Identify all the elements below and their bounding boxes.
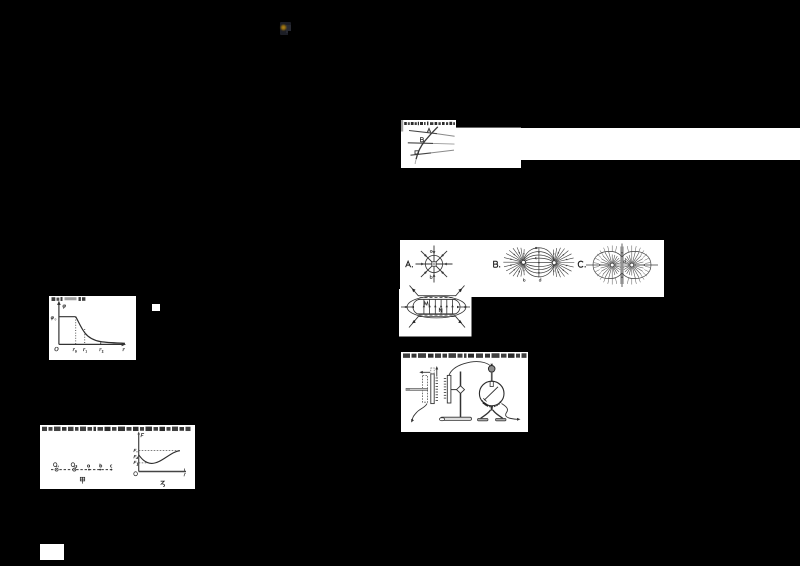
like charges field pattern (two negative charges) xyxy=(586,243,658,287)
charge ticks right of solid plate xyxy=(436,378,438,400)
garbled bold caption row xyxy=(42,426,191,430)
stand base xyxy=(441,417,472,420)
svg-text:φ: φ xyxy=(50,315,53,321)
dotted vertical at r1 xyxy=(83,329,85,344)
equipotential line middle xyxy=(407,141,432,144)
option label B. xyxy=(494,261,498,267)
inward arrowheads xyxy=(421,251,447,277)
svg-text:O: O xyxy=(54,347,59,353)
charge circles C xyxy=(610,263,614,267)
jia glyph xyxy=(80,477,84,483)
figure: equipotential lines with trajectory A B C xyxy=(401,120,521,168)
top plate xyxy=(418,295,456,297)
y tick labels xyxy=(134,449,138,465)
outer oval xyxy=(407,296,466,318)
figure: capacitor inside oval field region xyxy=(399,285,472,337)
svg-text:0: 0 xyxy=(75,349,77,353)
vertical field lines with up arrows xyxy=(424,299,453,313)
black top-right strip of scanned image xyxy=(456,120,521,128)
garbled caption xyxy=(51,297,85,301)
y axis xyxy=(57,304,59,345)
label B xyxy=(420,137,423,141)
figure: phi - r graph xyxy=(49,296,137,360)
corner diagonal field lines xyxy=(409,286,465,328)
horizontal phi0 line xyxy=(58,316,75,318)
garbled caption text xyxy=(404,121,455,125)
small white square right of graph xyxy=(152,304,161,311)
top arrows xyxy=(422,371,431,373)
svg-text:1: 1 xyxy=(85,349,87,353)
x axis xyxy=(58,343,122,345)
middle: plate on insulating stand xyxy=(447,375,451,403)
dipole field pattern xyxy=(523,247,554,277)
axis labels r0 r1 r2 r xyxy=(72,347,125,353)
middle vertical xyxy=(621,243,623,287)
r2 tick xyxy=(99,342,101,344)
charge circles xyxy=(522,260,526,264)
horizontal mid line through xyxy=(401,306,413,308)
svg-text:2: 2 xyxy=(101,349,103,353)
equipotential line bottom xyxy=(410,152,431,154)
grey smudge left edge xyxy=(401,120,403,132)
labels M N xyxy=(424,302,442,312)
boundary peanut curves xyxy=(593,251,622,265)
option label C. xyxy=(578,261,583,267)
right wavy wire with arrow xyxy=(502,404,519,420)
generated C spokes xyxy=(601,251,644,279)
electroscope xyxy=(490,364,493,366)
points a b c xyxy=(88,468,90,470)
yi graph: axes xyxy=(138,433,140,471)
bottom plate xyxy=(418,313,456,315)
clamp diamond xyxy=(457,386,465,394)
label A xyxy=(427,128,431,132)
label C (small square) xyxy=(415,150,418,153)
yi glyph xyxy=(161,481,165,486)
dotted vertical at r0 xyxy=(74,317,76,344)
negative point charge with inward rays xyxy=(416,245,453,282)
figure: electrostatics apparatus xyxy=(401,352,528,432)
small letters a b c d xyxy=(523,247,541,281)
trajectory curve xyxy=(416,126,438,158)
white band across page (row highlight) xyxy=(520,128,800,160)
inner stadium xyxy=(413,299,460,314)
wavy wire down-left with arrow xyxy=(412,404,427,421)
stand pole xyxy=(460,372,462,419)
curve xyxy=(139,450,180,463)
svg-text:0: 0 xyxy=(54,317,56,321)
equipotential line top xyxy=(409,130,437,133)
solid plate with dashed top xyxy=(431,374,434,404)
stand below xyxy=(491,406,493,411)
option label A. xyxy=(406,261,411,267)
garbled bold caption xyxy=(403,353,527,358)
dashed asymptote xyxy=(139,449,180,451)
arrowheads on C entries xyxy=(599,252,645,278)
generated B fans xyxy=(503,247,574,277)
connecting arcs xyxy=(523,247,554,260)
center vertical line xyxy=(538,247,540,277)
decay curve xyxy=(75,317,124,344)
a b labels xyxy=(430,250,432,278)
figure row: field patterns A B C xyxy=(400,240,664,297)
dashed plate xyxy=(423,375,428,402)
rod/handle xyxy=(406,388,428,390)
case circle xyxy=(479,381,504,406)
broken-image icon with orange dot xyxy=(280,22,292,35)
figure: two charges line (jia) and F-r graph (yi) xyxy=(40,425,195,489)
horizontal entries xyxy=(586,264,609,266)
dashed axis line with charges xyxy=(51,468,114,470)
bottom inner hatch xyxy=(482,401,501,407)
connecting wire to electroscope xyxy=(449,362,491,376)
needle xyxy=(484,387,498,400)
bottom-left white rectangle xyxy=(40,544,64,560)
